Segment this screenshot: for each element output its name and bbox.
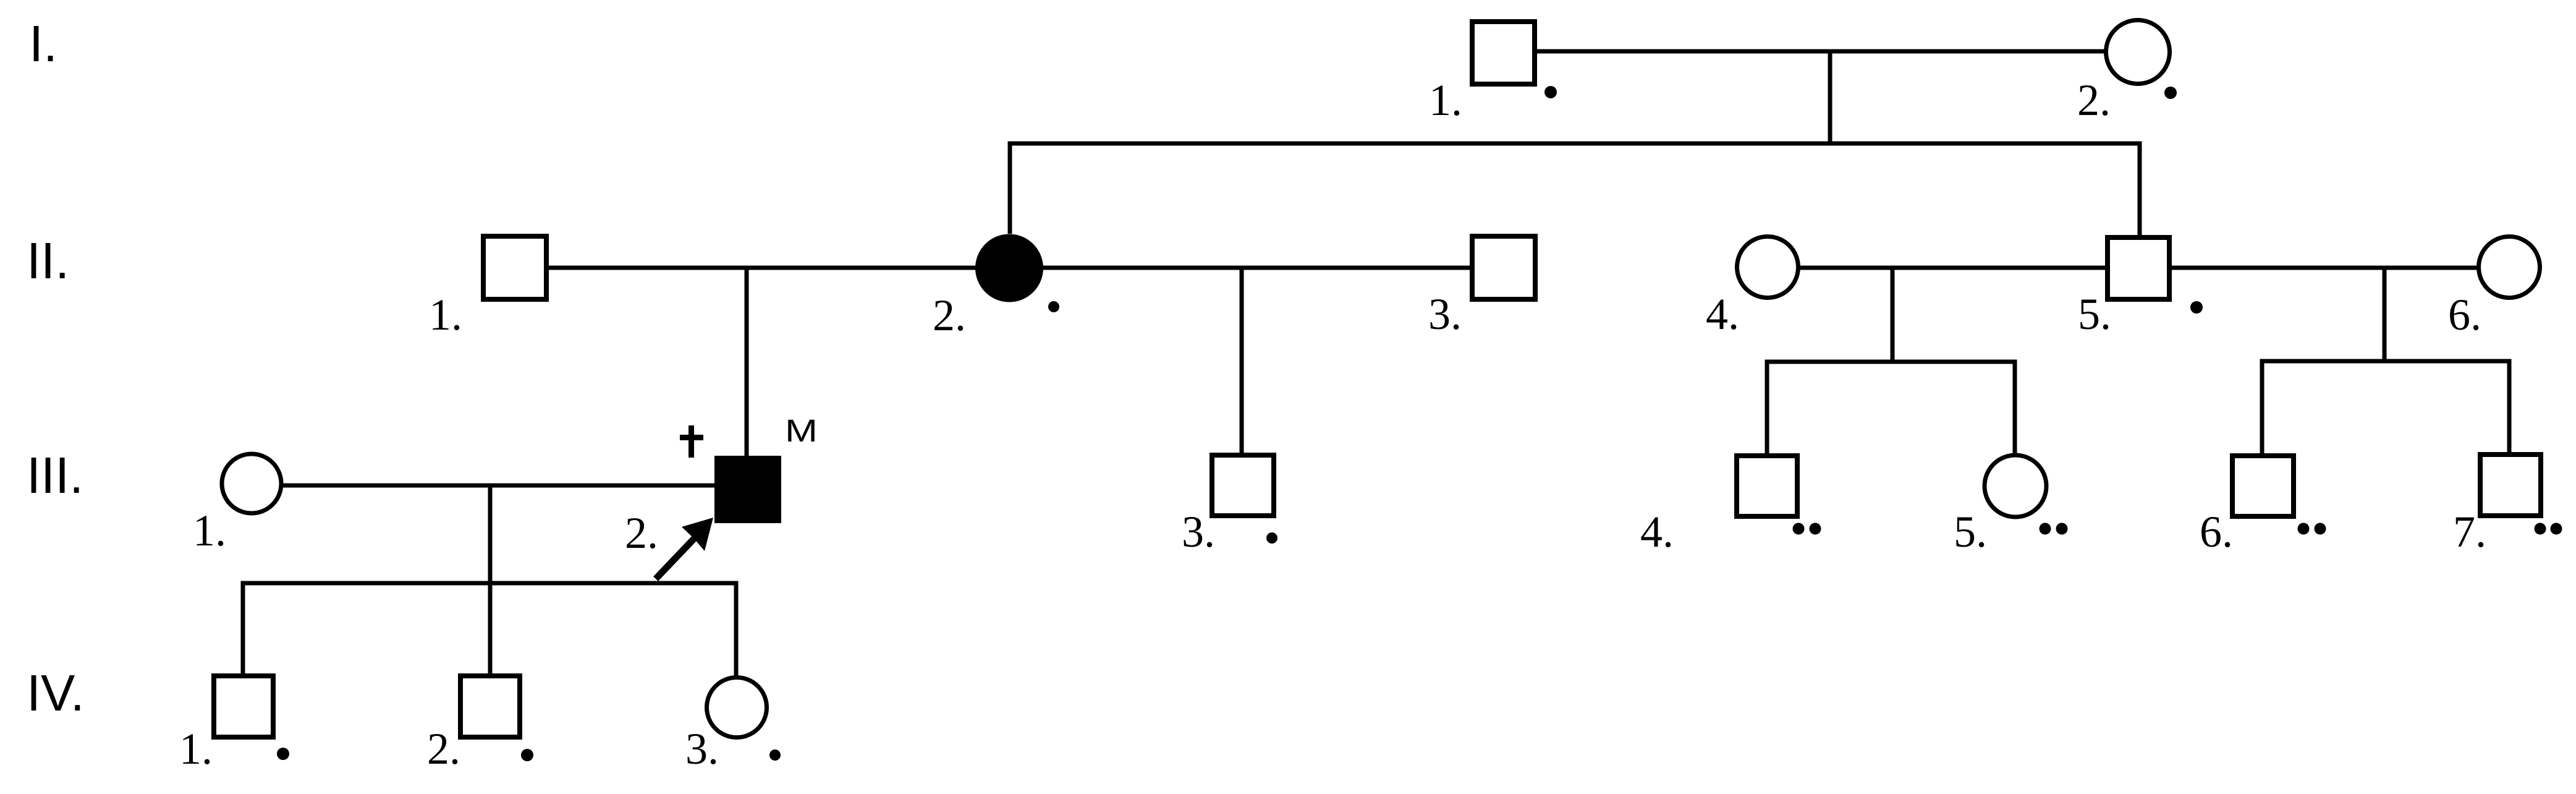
svg-text:3.: 3.	[1428, 289, 1462, 339]
dot marker III.3	[1266, 532, 1277, 544]
wire sibling line generation II	[1010, 143, 2140, 236]
svg-text:M: M	[785, 413, 818, 448]
label II.3	[1428, 289, 1462, 339]
individual II.2 affected circle	[975, 234, 1043, 302]
label III.4	[1640, 507, 1674, 557]
double dot marker III.4	[1793, 523, 1821, 535]
wire sibling bracket III.4-III.5	[1767, 362, 2015, 455]
dot marker IV.3	[769, 749, 781, 761]
individual II.5 square	[2108, 237, 2169, 299]
dot marker II.2	[1048, 301, 1059, 312]
wire marriage II.4-II.5	[1798, 266, 2108, 270]
individual I.2 circle	[2106, 20, 2170, 84]
dot marker I.1	[1544, 86, 1557, 98]
svg-text:2.: 2.	[427, 724, 460, 774]
wire marriage II.2-II.3	[1041, 266, 1472, 270]
label IV.3	[685, 724, 719, 774]
svg-text:2.: 2.	[2077, 75, 2111, 125]
wire marriage II.1-II.2	[546, 266, 978, 270]
label IV.2	[427, 724, 460, 774]
dagger deceased III.2	[680, 425, 703, 458]
label I.1	[1429, 75, 1462, 125]
individual III.7 square	[2480, 455, 2541, 516]
svg-text:2.: 2.	[933, 291, 966, 340]
svg-text:1.: 1.	[193, 506, 226, 555]
individual III.3 square	[1212, 455, 1274, 516]
double dot marker III.5	[2040, 523, 2068, 535]
wire drop from III.1-III.2 marriage	[488, 485, 493, 585]
individual III.4 square	[1737, 456, 1797, 516]
superscript M III.2	[785, 413, 818, 448]
dot marker IV.2	[521, 749, 533, 761]
generation label I.	[29, 15, 57, 72]
dot marker II.5	[2190, 301, 2203, 314]
svg-text:1.: 1.	[179, 724, 213, 774]
individual III.1 circle	[222, 454, 281, 513]
individual III.6 square	[2232, 456, 2294, 516]
label III.1	[193, 506, 226, 555]
svg-text:3.: 3.	[1182, 507, 1215, 557]
individual IV.3 circle	[707, 678, 767, 738]
individual IV.2 square	[460, 676, 520, 737]
label II.4	[1706, 289, 1739, 339]
svg-text:3.: 3.	[685, 724, 719, 774]
svg-text:5.: 5.	[2078, 289, 2111, 339]
svg-text:2.: 2.	[625, 508, 658, 558]
label II.2	[933, 291, 966, 340]
svg-text:6.: 6.	[2448, 290, 2481, 339]
generation label II.	[27, 232, 69, 289]
svg-text:5.: 5.	[1954, 507, 1987, 557]
label III.2	[625, 508, 658, 558]
wire sibling bracket III.6-III.7	[2262, 361, 2509, 455]
svg-text:III.: III.	[27, 446, 83, 504]
wire drop from II.4-II.5 marriage	[1891, 268, 1895, 362]
wire drop from II.5-II.6 marriage	[2383, 268, 2387, 361]
individual II.1 square	[483, 236, 546, 299]
svg-text:1.: 1.	[1429, 75, 1462, 125]
individual II.4 circle	[1737, 237, 1799, 298]
svg-text:4.: 4.	[1640, 507, 1674, 557]
double dot marker III.7	[2535, 523, 2562, 535]
svg-text:I.: I.	[29, 15, 57, 72]
svg-text:II.: II.	[27, 232, 69, 289]
label III.5	[1954, 507, 1987, 557]
generation label III.	[27, 446, 83, 504]
dot marker I.2	[2164, 87, 2177, 99]
label II.1	[429, 290, 462, 339]
wire marriage II.5-II.6	[2169, 266, 2479, 270]
wire sibling bracket IV	[243, 583, 736, 677]
generation label IV.	[27, 664, 85, 722]
individual I.1 square	[1472, 22, 1535, 84]
individual III.2 affected square proband	[714, 456, 781, 523]
label II.5	[2078, 289, 2111, 339]
wire drop to III.2	[745, 268, 749, 458]
wire marriage III.1-III.2	[282, 484, 717, 488]
individual III.5 circle	[1985, 455, 2046, 517]
wire drop to III.3	[1240, 268, 1244, 455]
svg-text:IV.: IV.	[27, 664, 85, 722]
individual II.6 circle	[2479, 237, 2540, 298]
svg-text:1.: 1.	[429, 290, 462, 339]
label II.6	[2448, 290, 2481, 339]
wire marriage I.1-I.2	[1535, 49, 2106, 54]
svg-text:7.: 7.	[2453, 507, 2486, 557]
svg-text:4.: 4.	[1706, 289, 1739, 339]
wire drop from I marriage	[1828, 51, 1832, 143]
individual IV.1 square	[214, 676, 273, 737]
individual II.3 square	[1472, 236, 1535, 299]
label I.2	[2077, 75, 2111, 125]
svg-text:6.: 6.	[2200, 507, 2233, 557]
label IV.1	[179, 724, 213, 774]
proband arrow	[656, 518, 713, 579]
wire drop to IV.2	[488, 583, 493, 676]
double dot marker III.6	[2298, 523, 2326, 535]
dot marker IV.1	[277, 748, 289, 760]
label III.6	[2200, 507, 2233, 557]
label III.3	[1182, 507, 1215, 557]
label III.7	[2453, 507, 2486, 557]
